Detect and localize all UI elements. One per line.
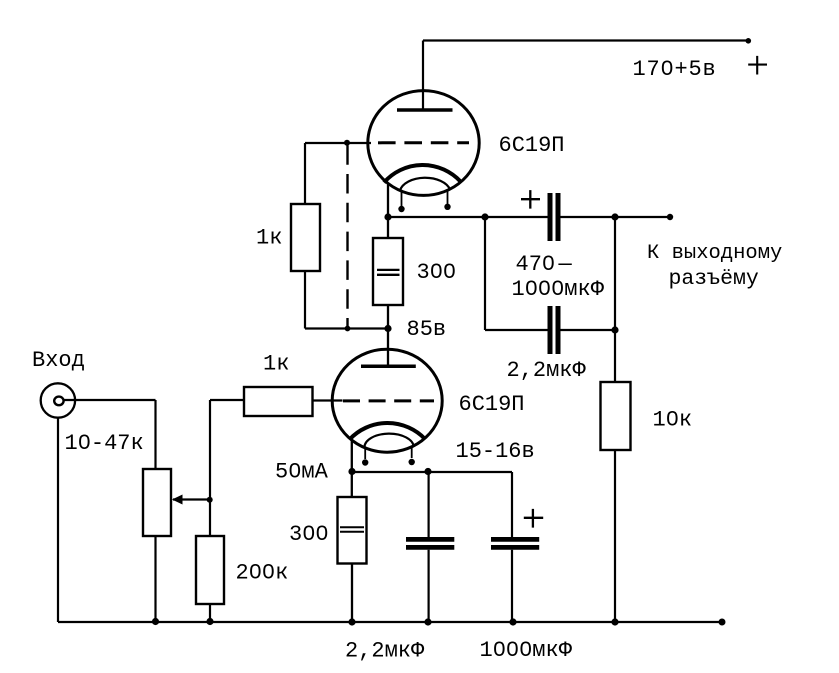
- svg-text:50мА: 50мА: [275, 460, 329, 485]
- svg-text:6С19П: 6С19П: [459, 392, 525, 417]
- svg-text:200к: 200к: [236, 561, 289, 586]
- svg-text:6С19П: 6С19П: [499, 133, 565, 158]
- svg-text:Вход: Вход: [32, 348, 85, 373]
- svg-text:15-16в: 15-16в: [456, 439, 535, 464]
- svg-text:1к: 1к: [256, 226, 282, 251]
- svg-text:К выходному: К выходному: [647, 242, 782, 265]
- svg-text:2,2мкФ: 2,2мкФ: [345, 639, 425, 664]
- svg-text:2,2мкФ: 2,2мкФ: [507, 358, 587, 383]
- svg-text:170+5в: 170+5в: [633, 57, 717, 82]
- svg-text:85в: 85в: [407, 317, 447, 342]
- svg-text:—: —: [558, 252, 573, 277]
- svg-text:разъёму: разъёму: [669, 267, 759, 291]
- svg-text:1к: 1к: [263, 352, 289, 377]
- svg-text:10-47к: 10-47к: [65, 431, 144, 456]
